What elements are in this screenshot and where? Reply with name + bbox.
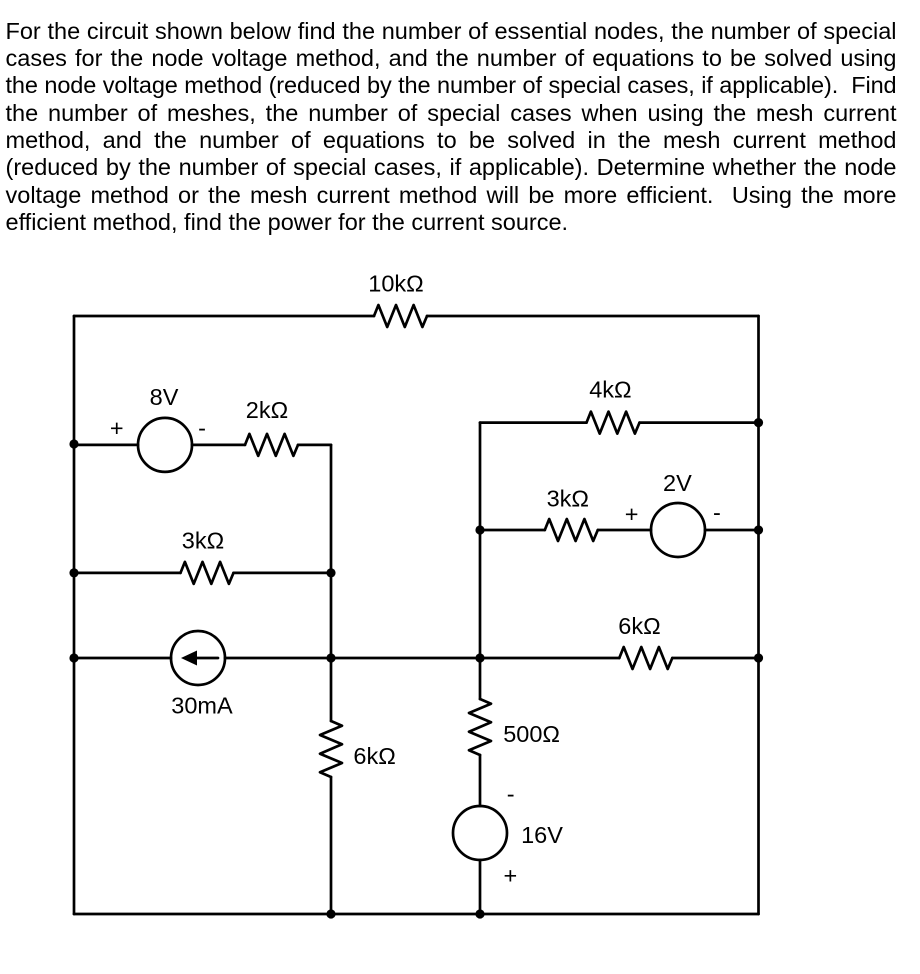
- wire current row from source to center column: [225, 657, 480, 660]
- resistor 10k (top edge): [374, 305, 427, 327]
- node right edge at 2V row: [754, 525, 763, 534]
- svg-text:500Ω: 500Ω: [503, 721, 560, 747]
- wire center column from 500 resistor to 16V source: [479, 755, 482, 806]
- current source 30mA arrowhead: [181, 651, 197, 666]
- voltage source 16V (circle): [453, 806, 507, 860]
- wire current row from left edge to source: [74, 657, 171, 660]
- resistor 6k (right): [619, 647, 672, 669]
- wire middle column upper segment: [330, 445, 333, 721]
- svg-text:6kΩ: 6kΩ: [618, 613, 660, 639]
- resistor 3k (right): [545, 519, 598, 541]
- wire 3k row from left edge to resistor: [74, 572, 181, 575]
- wire 4k row from center column to resistor: [480, 421, 587, 424]
- wire 4k row from resistor to right edge: [640, 421, 759, 424]
- wire right edge: [757, 316, 760, 914]
- svg-text:+: +: [625, 501, 639, 527]
- svg-text:-: -: [198, 415, 206, 441]
- current source 30mA arrow: [192, 657, 218, 660]
- resistor 6k (middle column, vertical): [320, 721, 342, 777]
- svg-text:8V: 8V: [150, 384, 179, 410]
- node right edge at current row: [754, 653, 763, 662]
- wire 3k row to middle column: [234, 572, 332, 575]
- svg-text:3kΩ: 3kΩ: [182, 528, 224, 554]
- wire left edge: [73, 316, 76, 914]
- node middle column at bottom edge: [326, 909, 335, 918]
- wire current row from center column to 6k resistor: [480, 657, 619, 660]
- svg-text:3kΩ: 3kΩ: [547, 486, 589, 512]
- wire current row from 6k to right edge: [672, 657, 758, 660]
- svg-text:16V: 16V: [521, 822, 563, 848]
- current source 30mA (circle): [171, 631, 225, 685]
- wire from 8V to 2k resistor: [192, 444, 245, 447]
- wire from 3k resistor to 2V source: [598, 529, 651, 532]
- resistor 3k (left): [181, 562, 234, 584]
- node middle column at 3k row: [326, 568, 335, 577]
- wire center column from 16V to bottom edge: [479, 860, 482, 914]
- resistor 4k: [587, 412, 640, 434]
- svg-text:2kΩ: 2kΩ: [246, 397, 288, 423]
- node center column at 2V row: [475, 525, 484, 534]
- wire center column from 4k row down to 500 resistor: [479, 423, 482, 699]
- resistor 2k: [245, 434, 298, 456]
- wire top edge left of 10k resistor: [74, 315, 374, 318]
- wire top edge right of 10k resistor: [427, 315, 759, 318]
- node left edge at 3k row: [69, 568, 78, 577]
- node center column at bottom edge: [475, 909, 484, 918]
- node left edge at current row: [69, 653, 78, 662]
- node middle column at current row: [326, 653, 335, 662]
- node left edge at 8V row: [69, 439, 78, 448]
- svg-text:30mA: 30mA: [171, 692, 233, 718]
- voltage source 2V (circle): [651, 503, 705, 557]
- node center column at current row: [475, 653, 484, 662]
- svg-text:4kΩ: 4kΩ: [589, 377, 631, 403]
- svg-text:-: -: [713, 500, 721, 526]
- wire 8V row from left edge to source: [74, 444, 138, 447]
- wire bottom edge: [74, 913, 759, 916]
- voltage source 8V (circle): [138, 418, 192, 472]
- wire middle column lower segment: [330, 777, 333, 914]
- svg-text:10kΩ: 10kΩ: [368, 271, 423, 297]
- svg-text:2V: 2V: [663, 470, 692, 496]
- resistor 500 (center column, vertical): [469, 699, 491, 755]
- wire from 2V source to right edge: [705, 529, 759, 532]
- svg-text:+: +: [504, 863, 518, 889]
- svg-text:6kΩ: 6kΩ: [353, 743, 395, 769]
- wire 2V row from center column to 3k resistor: [480, 529, 545, 532]
- svg-text:+: +: [110, 415, 124, 441]
- svg-text:-: -: [507, 781, 515, 807]
- wire from 2k resistor to middle column corner: [298, 444, 331, 447]
- node right edge at 4k row: [754, 418, 763, 427]
